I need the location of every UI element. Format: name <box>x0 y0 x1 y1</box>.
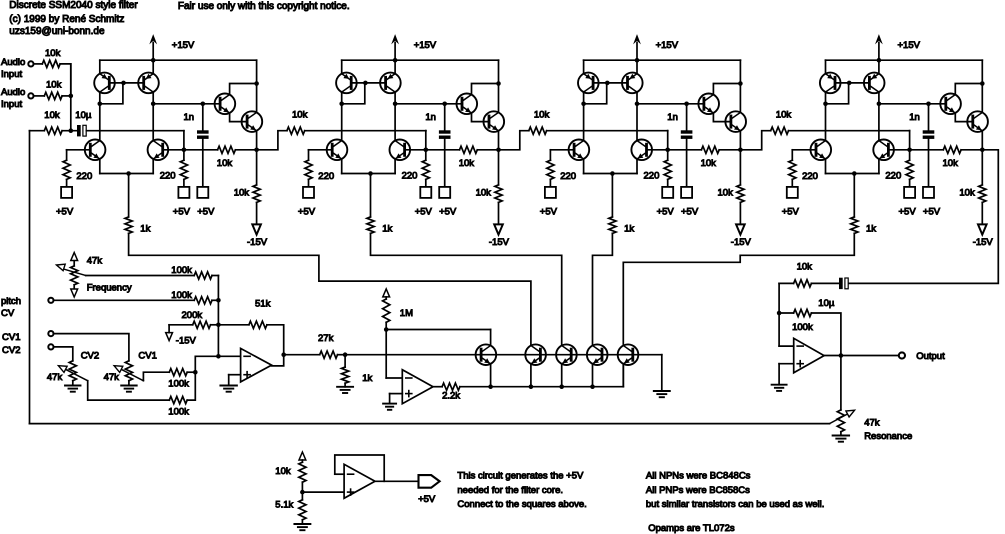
svg-text:220: 220 <box>644 171 660 182</box>
svg-text:CV: CV <box>1 308 15 319</box>
svg-text:1k: 1k <box>866 224 876 235</box>
svg-text:This circuit generates the +5V: This circuit generates the +5V <box>457 471 584 482</box>
svg-text:2.2k: 2.2k <box>442 391 460 402</box>
svg-text:+5V: +5V <box>418 494 436 505</box>
svg-text:+5V: +5V <box>923 207 941 218</box>
svg-text:-15V: -15V <box>489 237 510 248</box>
svg-text:All PNPs were BC858Cs: All PNPs were BC858Cs <box>646 485 750 496</box>
svg-text:+15V: +15V <box>656 40 679 51</box>
svg-text:100k: 100k <box>792 322 813 333</box>
svg-text:10k: 10k <box>776 110 792 121</box>
svg-text:1k: 1k <box>624 224 634 235</box>
svg-text:10µ: 10µ <box>818 298 835 309</box>
svg-text:Connect to the squares above.: Connect to the squares above. <box>457 499 586 510</box>
svg-text:220: 220 <box>318 171 334 182</box>
svg-text:10k: 10k <box>718 188 734 199</box>
svg-text:10µ: 10µ <box>75 110 92 121</box>
svg-text:1n: 1n <box>425 112 436 123</box>
svg-text:10k: 10k <box>275 466 291 477</box>
svg-text:Discrete SSM2040 style filter: Discrete SSM2040 style filter <box>9 0 138 11</box>
svg-text:1n: 1n <box>909 112 920 123</box>
svg-text:Opamps are TL072s: Opamps are TL072s <box>648 523 735 534</box>
svg-text:CV1: CV1 <box>138 351 156 362</box>
svg-text:uzs159@uni-bonn.de: uzs159@uni-bonn.de <box>9 26 105 37</box>
svg-text:+5V: +5V <box>197 207 215 218</box>
svg-text:Input: Input <box>1 69 22 80</box>
svg-text:Input: Input <box>1 99 22 110</box>
svg-text:47k: 47k <box>87 256 103 267</box>
svg-text:pitch: pitch <box>1 296 21 307</box>
svg-text:220: 220 <box>402 171 418 182</box>
svg-text:10k: 10k <box>459 158 475 169</box>
svg-text:Frequency: Frequency <box>87 283 132 294</box>
svg-text:+5V: +5V <box>173 207 191 218</box>
svg-text:100k: 100k <box>168 379 189 390</box>
svg-text:+5V: +5V <box>56 207 74 218</box>
svg-text:but similar transistors can be: but similar transistors can be used as w… <box>646 499 824 510</box>
svg-text:-15V: -15V <box>176 336 197 347</box>
svg-text:220: 220 <box>560 171 576 182</box>
svg-text:47k: 47k <box>864 418 880 429</box>
svg-text:+5V: +5V <box>782 207 800 218</box>
svg-text:10k: 10k <box>959 188 975 199</box>
svg-text:+5V: +5V <box>415 207 433 218</box>
svg-text:1k: 1k <box>362 373 372 384</box>
svg-text:(c) 1999 by René Schmitz: (c) 1999 by René Schmitz <box>9 14 124 25</box>
svg-text:+15V: +15V <box>898 40 921 51</box>
svg-text:10k: 10k <box>45 48 61 59</box>
svg-text:10k: 10k <box>797 262 813 273</box>
svg-text:+5V: +5V <box>439 207 457 218</box>
svg-text:51k: 51k <box>255 299 271 310</box>
svg-text:+5V: +5V <box>681 207 699 218</box>
svg-text:Resonance: Resonance <box>864 431 912 442</box>
svg-text:10k: 10k <box>476 188 492 199</box>
svg-text:5.1k: 5.1k <box>275 500 293 511</box>
svg-text:-15V: -15V <box>247 237 268 248</box>
svg-text:47k: 47k <box>104 372 120 383</box>
svg-text:needed for the filter core.: needed for the filter core. <box>457 485 563 496</box>
svg-text:220: 220 <box>802 171 818 182</box>
svg-text:27k: 27k <box>318 333 334 344</box>
svg-text:200k: 200k <box>182 310 203 321</box>
svg-text:Output: Output <box>916 351 945 362</box>
svg-text:+15V: +15V <box>172 40 195 51</box>
svg-text:220: 220 <box>76 171 92 182</box>
svg-text:10k: 10k <box>534 110 550 121</box>
svg-text:10k: 10k <box>44 110 60 121</box>
svg-text:-15V: -15V <box>731 237 752 248</box>
svg-text:10k: 10k <box>943 158 959 169</box>
svg-text:1n: 1n <box>184 112 195 123</box>
svg-text:10k: 10k <box>46 80 62 91</box>
svg-text:1M: 1M <box>400 308 413 319</box>
svg-text:47k: 47k <box>47 372 63 383</box>
svg-text:CV2: CV2 <box>81 351 99 362</box>
svg-text:+5V: +5V <box>540 207 558 218</box>
svg-text:CV1: CV1 <box>2 332 20 343</box>
svg-text:+5V: +5V <box>657 207 675 218</box>
svg-text:CV2: CV2 <box>2 345 20 356</box>
svg-text:Audio: Audio <box>1 87 25 98</box>
svg-text:10k: 10k <box>217 158 233 169</box>
svg-text:10k: 10k <box>234 188 250 199</box>
svg-text:100k: 100k <box>168 407 189 418</box>
svg-text:Fair use only with this copyri: Fair use only with this copyright notice… <box>178 1 350 12</box>
svg-text:1k: 1k <box>382 224 392 235</box>
svg-text:10k: 10k <box>701 158 717 169</box>
svg-text:220: 220 <box>160 171 176 182</box>
svg-text:100k: 100k <box>171 265 192 276</box>
svg-text:1n: 1n <box>667 112 678 123</box>
svg-text:All NPNs were BC848Cs: All NPNs were BC848Cs <box>646 471 751 482</box>
svg-text:+15V: +15V <box>414 40 437 51</box>
svg-text:10k: 10k <box>292 110 308 121</box>
svg-text:Audio: Audio <box>1 57 25 68</box>
svg-text:-15V: -15V <box>973 237 994 248</box>
svg-text:1k: 1k <box>140 224 150 235</box>
svg-text:220: 220 <box>885 171 901 182</box>
svg-text:+5V: +5V <box>899 207 917 218</box>
svg-text:100k: 100k <box>171 290 192 301</box>
svg-text:+5V: +5V <box>298 207 316 218</box>
